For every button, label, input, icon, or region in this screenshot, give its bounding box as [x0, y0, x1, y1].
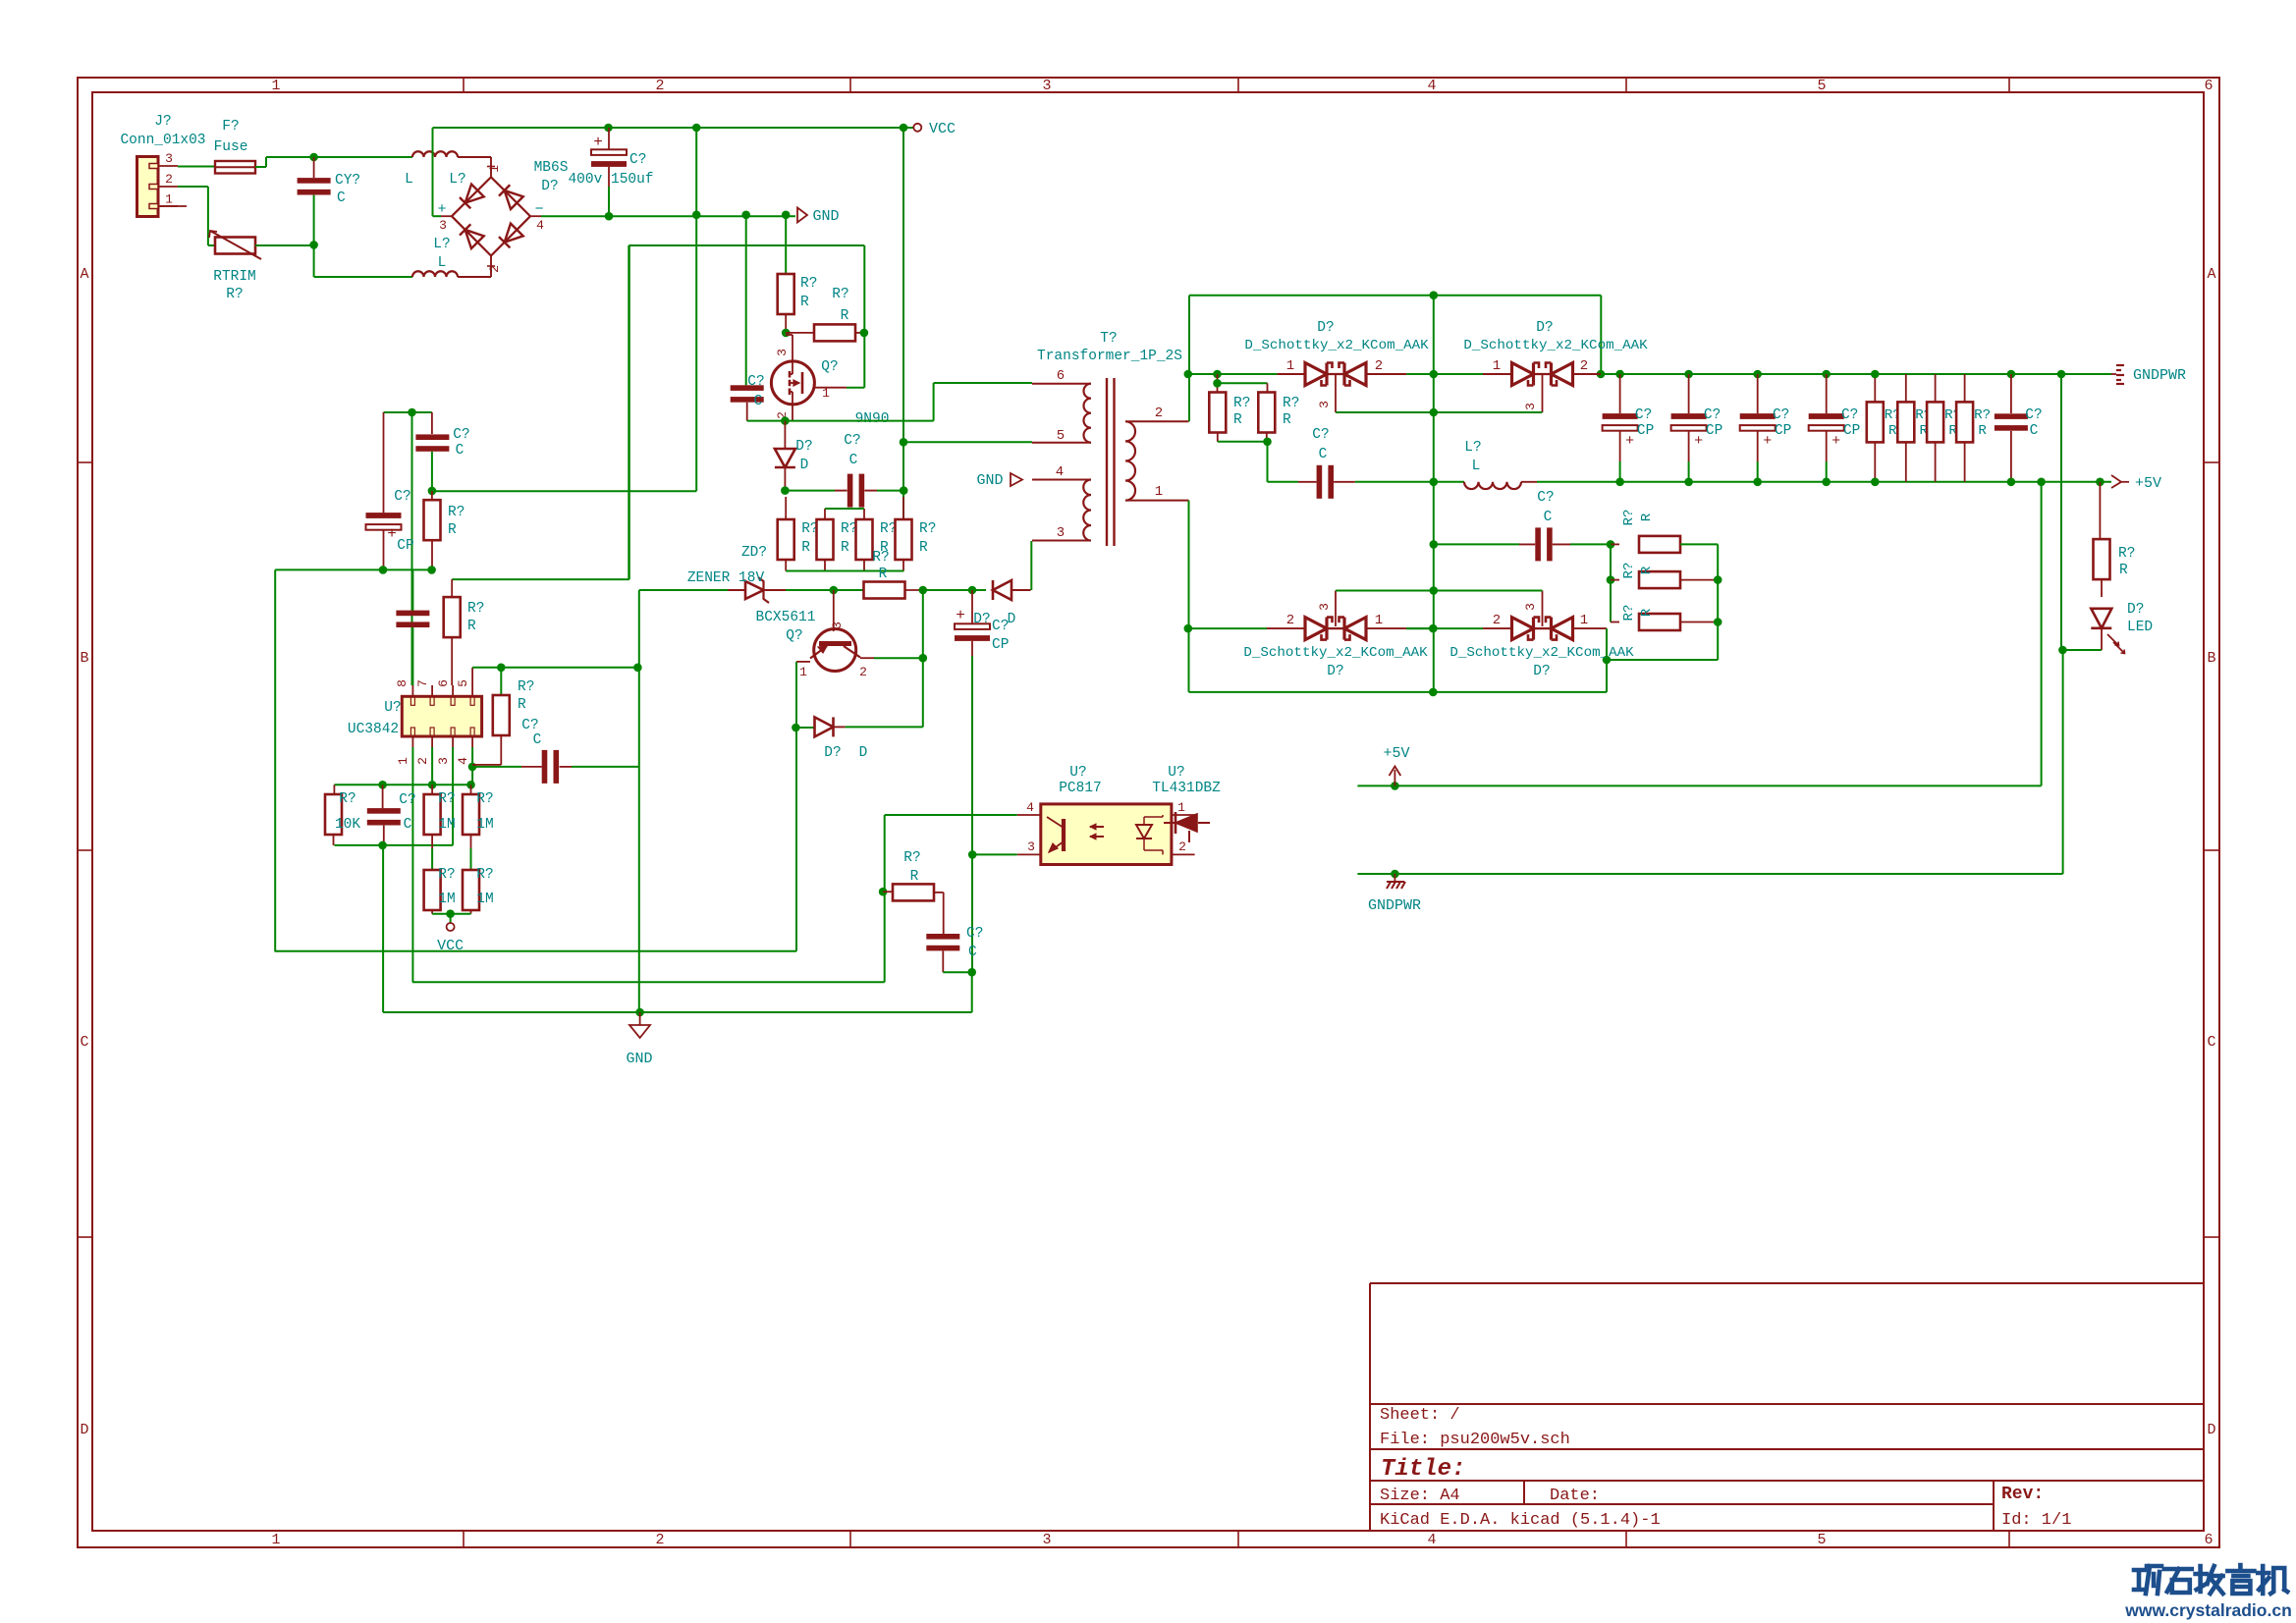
wire gate stub — [847, 387, 864, 389]
svg-text:C?: C? — [992, 619, 1009, 634]
svg-text:R: R — [879, 567, 888, 582]
svg-text:4: 4 — [456, 757, 470, 765]
svg-text:C: C — [1544, 510, 1553, 525]
svg-text:+5V: +5V — [1383, 745, 1409, 762]
svg-text:L: L — [1472, 459, 1481, 474]
cap C? 400v 150uf (bulk) — [604, 124, 613, 133]
svg-text:3: 3 — [165, 151, 173, 166]
svg-text:D_Schottky_x2_KCom_AAK: D_Schottky_x2_KCom_AAK — [1244, 338, 1429, 353]
link wire of middle clamp resistors — [825, 508, 864, 510]
VCC top rail — [433, 127, 915, 129]
svg-text:R: R — [1283, 412, 1291, 428]
svg-text:D?: D? — [1536, 320, 1553, 336]
wire R bottom elbow — [472, 764, 501, 766]
svg-text:A: A — [2207, 266, 2215, 283]
bottom bus row 1 — [275, 950, 797, 952]
svg-text:R?: R? — [903, 850, 920, 866]
svg-text:MB6S: MB6S — [534, 160, 569, 176]
cap C? CP (output, polarized) — [1822, 370, 1831, 379]
svg-text:Q?: Q? — [786, 628, 802, 644]
svg-text:C?: C? — [394, 489, 410, 505]
pin1 column — [411, 747, 413, 982]
LED column from GNDPWR rail — [2060, 374, 2062, 650]
svg-text:6: 6 — [2204, 1532, 2213, 1548]
svg-text:8: 8 — [395, 679, 410, 687]
svg-text:UC3842: UC3842 — [348, 722, 399, 737]
power symbol +5V — [1394, 770, 1395, 785]
svg-text:R?: R? — [438, 867, 455, 883]
svg-text:D: D — [800, 458, 809, 473]
svg-text:D?: D? — [541, 179, 558, 194]
svg-text:2: 2 — [165, 172, 173, 187]
cap C? C (feedback RC) — [943, 893, 945, 934]
svg-text:L?: L? — [433, 237, 450, 252]
LED D? LED — [2091, 609, 2111, 628]
resistor R? R (LED) — [2096, 478, 2105, 487]
inductor L? L (output choke) — [1434, 481, 1464, 483]
svg-text:Rev:: Rev: — [2001, 1485, 2044, 1504]
svg-text:C: C — [968, 945, 977, 960]
svg-text:+: + — [956, 607, 965, 624]
pin4 wires and cap C? C (osc) — [471, 747, 473, 784]
svg-text:1: 1 — [1493, 358, 1501, 374]
svg-text:CP: CP — [1637, 423, 1654, 439]
fuse F? — [215, 161, 255, 174]
svg-text:2: 2 — [1375, 358, 1383, 374]
watermark logo — [2134, 1570, 2145, 1590]
svg-text:1M: 1M — [476, 817, 493, 833]
terminal VCC — [900, 124, 908, 133]
svg-text:CP: CP — [992, 637, 1009, 653]
svg-text:C?: C? — [1841, 407, 1858, 423]
global label GND (aux winding) — [1011, 473, 1022, 486]
svg-text:B: B — [2207, 650, 2215, 667]
svg-text:CY?: CY? — [335, 173, 360, 189]
svg-text:ZD?: ZD? — [741, 545, 767, 561]
svg-text:CP: CP — [1706, 423, 1722, 439]
svg-text:5: 5 — [456, 679, 470, 687]
svg-text:3: 3 — [1317, 603, 1332, 611]
snubber loop wire — [629, 244, 864, 246]
svg-text:C?: C? — [966, 926, 983, 942]
svg-text:GND: GND — [976, 472, 1003, 489]
cap C? C (pin7 RC, horizontal plates) — [431, 412, 433, 434]
svg-text:+: + — [593, 134, 603, 151]
svg-text:4: 4 — [1056, 464, 1064, 480]
svg-text:C?: C? — [453, 427, 469, 443]
connector J? Conn_01x03 — [137, 157, 159, 217]
pin3 drop (top right pair) — [1542, 375, 1544, 412]
svg-text:1: 1 — [271, 1532, 280, 1548]
svg-text:10K: 10K — [335, 817, 360, 833]
resistor R? R (BCX collector, horizontal) — [834, 589, 864, 591]
svg-text:GND: GND — [812, 208, 839, 225]
svg-text:ZENER 18V: ZENER 18V — [687, 570, 765, 586]
junction at CY top — [309, 153, 318, 162]
GNDPWR bottom row — [1357, 873, 2062, 875]
pin3 wire down to row 861 — [452, 747, 454, 845]
svg-text:D_Schottky_x2_KCom_AAK: D_Schottky_x2_KCom_AAK — [1463, 338, 1648, 353]
svg-text:C?: C? — [629, 152, 646, 168]
svg-text:R: R — [1233, 412, 1242, 428]
svg-text:Q?: Q? — [821, 359, 838, 375]
svg-text:Conn_01x03: Conn_01x03 — [120, 133, 205, 148]
svg-text:R?: R? — [339, 791, 355, 807]
svg-text:3: 3 — [830, 622, 845, 629]
global label +5V (rail end) — [2111, 475, 2121, 488]
svg-text:+: + — [1625, 433, 1634, 450]
cap C? C (gate cap) — [745, 215, 747, 386]
cap C? C (secondary snubber) — [1298, 481, 1317, 483]
svg-text:3: 3 — [1042, 1532, 1051, 1548]
svg-text:4: 4 — [1427, 78, 1436, 94]
resistor R? R (drain pull, vertical) — [785, 215, 787, 274]
diode D? D (horizontal, points left) — [972, 589, 986, 591]
pin3 rise (bottom right pair) — [1542, 591, 1544, 627]
resistor R? R (pin7, vertical) — [431, 491, 433, 500]
pin3 rise (bottom left pair) — [1335, 591, 1337, 627]
row 799 wires — [334, 784, 470, 785]
svg-text:C?: C? — [844, 433, 860, 449]
svg-text:+5V: +5V — [2135, 475, 2161, 492]
source row wire — [747, 420, 934, 422]
svg-text:KiCad E.D.A. kicad (5.1.4)-1: KiCad E.D.A. kicad (5.1.4)-1 — [1380, 1511, 1661, 1530]
svg-text:CP: CP — [1775, 423, 1791, 439]
svg-text:GNDPWR: GNDPWR — [1368, 897, 1421, 914]
svg-text:6: 6 — [1057, 368, 1065, 384]
wire mid column down (GND-net) — [692, 124, 701, 133]
svg-text:R: R — [801, 540, 810, 556]
svg-text:F?: F? — [222, 119, 239, 135]
optocoupler U? PC817 — [1041, 804, 1172, 865]
svg-text:R: R — [919, 540, 928, 556]
wire to transformer pin3 — [1030, 541, 1032, 590]
clamp bottom bus — [786, 570, 903, 572]
wire PC817 pin3 — [972, 853, 1016, 855]
cap C? CP (output, polarized) — [1753, 370, 1762, 379]
svg-text:6: 6 — [2204, 78, 2213, 94]
svg-text:D?: D? — [824, 745, 841, 761]
resistor R? R (vref divider) — [452, 578, 629, 580]
svg-text:R?: R? — [467, 601, 484, 617]
svg-text:C?: C? — [1773, 407, 1789, 423]
svg-text:5: 5 — [1817, 78, 1826, 94]
wire diode row — [781, 486, 790, 495]
svg-text:Fuse: Fuse — [214, 139, 248, 155]
svg-text:R: R — [800, 295, 809, 310]
row 580 wires — [275, 568, 432, 570]
resistor R? R (load) — [1874, 374, 1876, 402]
bottom loop wire — [1189, 691, 1608, 693]
svg-text:C?: C? — [2025, 407, 2042, 423]
cap C? C (feedback sense) — [1430, 540, 1439, 549]
svg-text:1: 1 — [1580, 613, 1588, 628]
svg-text:1: 1 — [271, 78, 280, 94]
cap C? CP (output, polarized) — [1615, 370, 1624, 379]
wire J-pin3 to fuse — [178, 166, 215, 168]
svg-text:C?: C? — [747, 374, 764, 390]
zener diode ZD? ZENER 18V — [639, 589, 728, 591]
global label GND (input) — [797, 208, 807, 223]
svg-text:3: 3 — [1317, 401, 1332, 408]
bottom rail (schottky pairs) — [1189, 627, 1268, 629]
svg-text:R?: R? — [1974, 407, 1991, 423]
primary winding pins 6-5 — [1032, 383, 1091, 385]
svg-text:L: L — [438, 255, 447, 271]
inductor L1 (upper filter coil) — [412, 151, 458, 157]
svg-text:D?: D? — [1327, 664, 1343, 679]
wire PC817 pin4 — [885, 814, 1017, 816]
power symbol GND (down arrow) — [639, 1012, 641, 1025]
svg-text:C: C — [754, 394, 763, 409]
svg-text:R?: R? — [832, 287, 848, 302]
svg-text:R?: R? — [448, 505, 465, 520]
svg-text:C?: C? — [1312, 427, 1329, 443]
svg-text:C: C — [2030, 423, 2039, 439]
svg-text:R?: R? — [2118, 546, 2135, 562]
svg-text:C?: C? — [399, 792, 415, 808]
sense resistor network R? R x3 — [1607, 540, 1615, 549]
svg-text:R?: R? — [872, 550, 889, 566]
svg-text:2: 2 — [655, 78, 664, 94]
wire L1 to bridge pin1 — [458, 156, 491, 158]
resistor R? R (snubber b) — [1213, 379, 1222, 388]
wire bridge+ to rail — [433, 215, 442, 217]
power symbol GNDPWR (bottom) — [1394, 874, 1395, 881]
svg-text:D: D — [859, 745, 868, 761]
diode D? D (vertical, below MOSFET) — [784, 421, 786, 448]
svg-text:C: C — [456, 443, 465, 459]
BCX collector wire — [874, 657, 923, 659]
svg-text:R?: R? — [919, 521, 936, 537]
svg-text:R: R — [1888, 423, 1897, 439]
svg-text:+: + — [1694, 433, 1703, 450]
svg-text:R: R — [2119, 563, 2128, 578]
svg-text:LED: LED — [2127, 620, 2153, 635]
svg-text:3: 3 — [436, 757, 451, 765]
svg-text:Date:: Date: — [1550, 1487, 1600, 1505]
svg-text:R: R — [518, 697, 526, 713]
svg-text:J?: J? — [154, 114, 171, 130]
aux winding pins 4-3 — [1032, 479, 1091, 481]
resistor R? R (gate, horizontal) — [782, 329, 791, 338]
VCC terminal (bottom) — [432, 913, 470, 915]
svg-text:6: 6 — [436, 679, 451, 687]
svg-text:2: 2 — [859, 665, 867, 679]
cap C? CP (output, polarized) — [1684, 370, 1693, 379]
svg-text:3: 3 — [439, 218, 447, 233]
svg-text:R?: R? — [800, 276, 817, 292]
wire L2 to bridge pin2 — [458, 276, 491, 278]
svg-text:D: D — [80, 1422, 88, 1438]
svg-text:R: R — [841, 308, 849, 324]
svg-text:File: psu200w5v.sch: File: psu200w5v.sch — [1380, 1431, 1570, 1449]
svg-text:+: + — [387, 525, 397, 543]
MOSFET Q? 9N90 — [771, 361, 814, 405]
svg-text:R?: R? — [438, 791, 455, 807]
svg-text:5: 5 — [1057, 428, 1065, 444]
svg-text:C: C — [404, 817, 412, 833]
svg-text:VCC: VCC — [929, 121, 956, 137]
svg-text:Size: A4: Size: A4 — [1380, 1487, 1460, 1505]
wire J-pin2 down to RTRIM — [178, 186, 208, 188]
MOSFET pins — [792, 335, 793, 361]
svg-text:D?: D? — [2127, 602, 2144, 618]
svg-text:2: 2 — [1178, 839, 1186, 854]
svg-text:C: C — [337, 190, 346, 206]
cap CY? C (Y-capacitor) — [313, 157, 315, 178]
svg-text:2: 2 — [1580, 358, 1588, 374]
resistor R? 1M (b) — [470, 784, 472, 794]
svg-text:www.crystalradio.cn: www.crystalradio.cn — [2124, 1600, 2292, 1620]
svg-text:GND: GND — [626, 1051, 652, 1067]
svg-text:C?: C? — [1537, 490, 1554, 506]
svg-text:C: C — [849, 453, 858, 468]
resistor R? R (load) — [1905, 374, 1907, 402]
svg-text:Id: 1/1: Id: 1/1 — [2001, 1511, 2071, 1530]
wire +5V feedback drop — [2037, 478, 2046, 487]
cap C? C (feedback) — [382, 784, 384, 808]
svg-text:7: 7 — [415, 679, 430, 687]
cap C? C (pin8 decoupling) — [411, 569, 413, 610]
resistor R? R (load) — [1935, 374, 1937, 402]
svg-text:400v 150uf: 400v 150uf — [568, 172, 653, 188]
varistor RTRIM R? — [215, 238, 255, 254]
svg-text:1: 1 — [165, 192, 173, 207]
svg-text:C: C — [533, 732, 542, 748]
svg-text:2: 2 — [655, 1532, 664, 1548]
svg-text:U?: U? — [384, 700, 401, 716]
svg-text:A: A — [80, 266, 88, 283]
power symbol GNDPWR (rail end) — [2057, 370, 2066, 379]
svg-text:1M: 1M — [438, 817, 455, 833]
svg-text:2: 2 — [1493, 613, 1501, 628]
svg-text:1M: 1M — [438, 892, 455, 907]
+5V output rail — [1430, 478, 1439, 487]
svg-text:Transformer_1P_2S: Transformer_1P_2S — [1037, 349, 1182, 364]
resistor R? R (load) — [1964, 374, 1966, 402]
svg-text:R: R — [910, 869, 919, 885]
wire fuse to CY junction and L1 — [255, 166, 266, 168]
svg-text:U?: U? — [1168, 765, 1184, 781]
zener column down to GND row — [638, 590, 640, 1012]
resistor R? 10K — [333, 784, 335, 794]
svg-text:C?: C? — [1704, 407, 1721, 423]
svg-text:TL431DBZ: TL431DBZ — [1152, 781, 1221, 796]
svg-text:3: 3 — [1057, 525, 1065, 541]
svg-text:R: R — [448, 522, 457, 538]
resistor R? 1M (c) — [431, 848, 433, 870]
svg-text:PC817: PC817 — [1059, 781, 1102, 796]
svg-text:B: B — [80, 650, 88, 667]
svg-text:2: 2 — [415, 757, 430, 765]
svg-text:C: C — [80, 1034, 88, 1051]
svg-text:C?: C? — [1635, 407, 1652, 423]
svg-text:1: 1 — [1155, 484, 1163, 500]
wire RTRIM to junction — [255, 244, 314, 246]
resistor R? R (clamp 3) — [863, 509, 865, 519]
transistor Q? BCX5611 — [833, 590, 835, 631]
resistor R? R (feedback RC) — [879, 888, 888, 896]
svg-text:5: 5 — [1817, 1532, 1826, 1548]
svg-text:C: C — [1319, 447, 1328, 462]
transformer pin1 column — [1188, 501, 1190, 628]
svg-text:R?: R? — [1621, 562, 1637, 578]
svg-text:Title:: Title: — [1381, 1456, 1465, 1483]
svg-text:L?: L? — [449, 172, 465, 188]
resistor R? R (clamp 2) — [824, 509, 826, 519]
resistor R? R (clamp 1) — [785, 497, 787, 519]
svg-text:C?: C? — [521, 718, 538, 733]
svg-text:R: R — [1639, 608, 1655, 617]
svg-text:1M: 1M — [476, 892, 493, 907]
zener row wires — [786, 589, 834, 591]
svg-text:2: 2 — [1286, 613, 1294, 628]
svg-text:R?: R? — [1283, 396, 1299, 411]
cap C? C (output ceramic) — [2007, 370, 2016, 379]
svg-text:GNDPWR: GNDPWR — [2133, 367, 2186, 384]
GND row from bridge- — [541, 215, 795, 217]
svg-text:L: L — [405, 172, 413, 188]
svg-text:BCX5611: BCX5611 — [756, 610, 816, 625]
svg-text:1: 1 — [1177, 800, 1185, 815]
svg-text:3: 3 — [775, 349, 790, 356]
svg-text:R: R — [1639, 566, 1655, 574]
svg-text:+: + — [1831, 433, 1840, 450]
svg-text:R: R — [1978, 423, 1987, 439]
wire down to lower filter line — [313, 245, 315, 277]
loop over schottky pairs — [1189, 295, 1601, 297]
cap C? C (snubber, horizontal) — [847, 474, 853, 508]
svg-text:Sheet: /: Sheet: / — [1380, 1406, 1460, 1425]
svg-text:U?: U? — [1069, 765, 1086, 781]
svg-text:3: 3 — [1523, 603, 1538, 611]
svg-text:1: 1 — [396, 757, 410, 765]
svg-text:R?: R? — [1233, 396, 1250, 411]
svg-text:R?: R? — [518, 679, 534, 695]
svg-text:C: C — [2207, 1034, 2215, 1051]
svg-text:3: 3 — [1042, 78, 1051, 94]
svg-text:2: 2 — [1155, 406, 1163, 421]
svg-text:R: R — [467, 619, 476, 634]
svg-text:T?: T? — [1100, 331, 1117, 347]
+5V bottom feedback row — [1357, 784, 2041, 786]
svg-text:4: 4 — [1026, 800, 1034, 815]
svg-text:D?: D? — [795, 439, 812, 455]
cap C? CP (vref, polarized) — [383, 412, 385, 513]
svg-text:D: D — [2207, 1422, 2215, 1438]
pin3 drop (top left pair) — [1335, 375, 1337, 412]
junction VCC column pin5 — [900, 438, 908, 447]
snubber RC link — [1218, 441, 1268, 443]
svg-text:+: + — [1763, 433, 1772, 450]
pin2 column to divider — [431, 747, 433, 784]
pin 1 stub (n.c.) — [158, 205, 187, 207]
svg-text:RTRIM: RTRIM — [213, 269, 256, 285]
cap C? CP (aux supply, polarized) — [971, 590, 973, 623]
svg-text:L?: L? — [1464, 440, 1481, 456]
inductor L2 (lower filter coil) — [412, 271, 458, 277]
svg-text:4: 4 — [1427, 1532, 1436, 1548]
svg-text:1: 1 — [1375, 613, 1383, 628]
wire VCC column down — [902, 128, 904, 519]
svg-text:D?: D? — [1533, 664, 1550, 679]
svg-text:9N90: 9N90 — [855, 411, 890, 427]
bottom GND bus — [383, 1011, 972, 1013]
svg-text:4: 4 — [536, 218, 544, 233]
IC U? UC3842 — [402, 696, 481, 736]
svg-text:CP: CP — [397, 538, 413, 554]
